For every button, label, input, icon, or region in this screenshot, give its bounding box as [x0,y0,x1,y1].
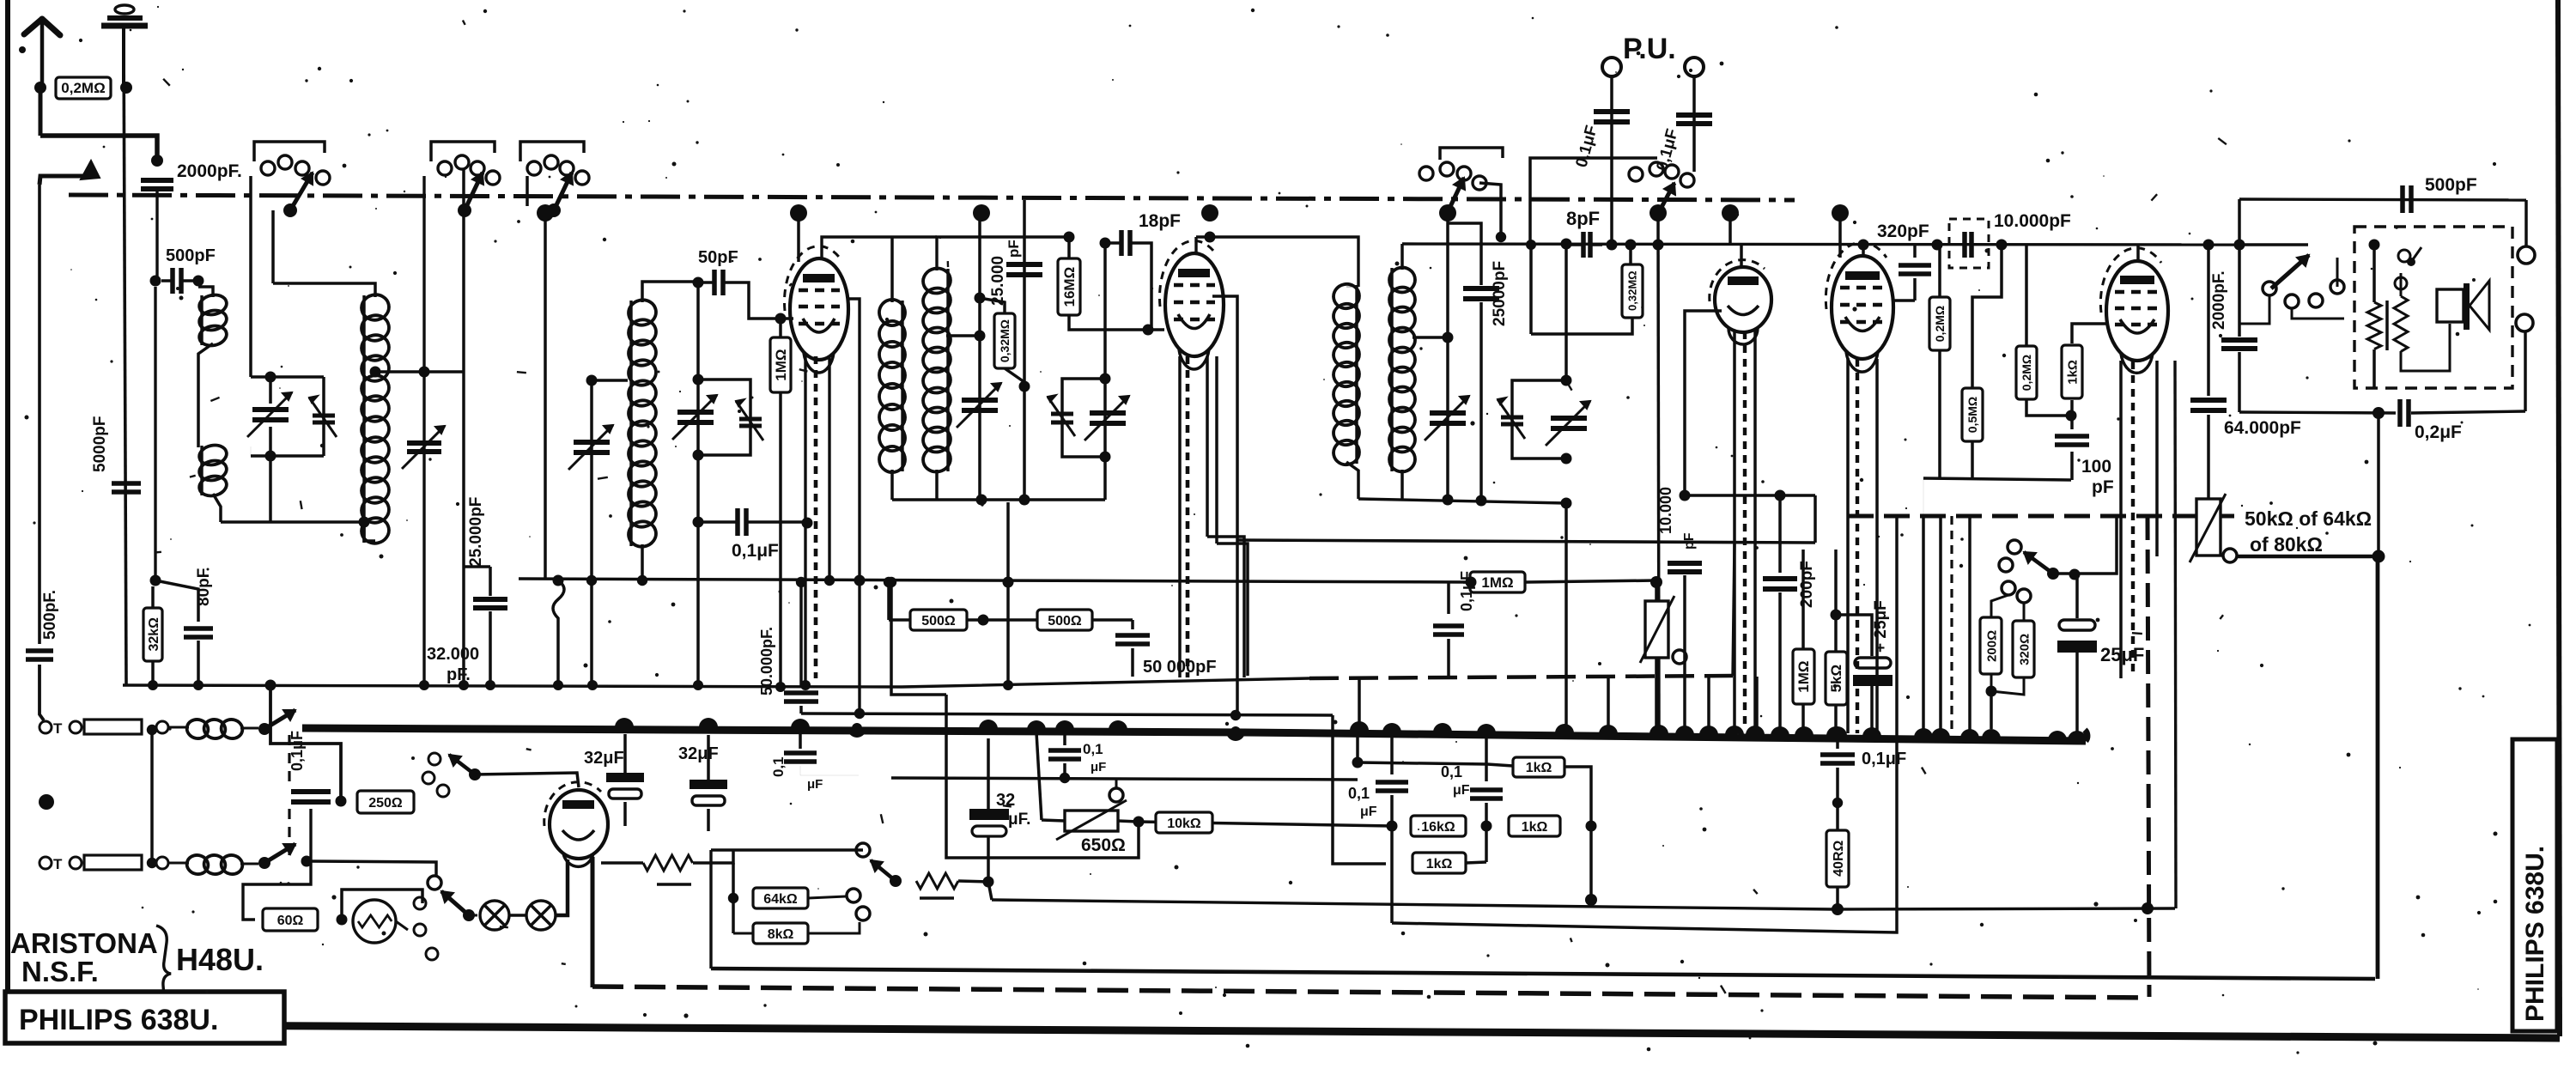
transformer secondary winding [2394,296,2408,351]
wire x1621 bottom corner [1392,516,1897,932]
trimmer branch [322,377,325,456]
trimmer capacitor 3 [1051,412,1073,416]
svg-text:500pF: 500pF [166,246,216,265]
wire selector top line [711,848,863,852]
resistor 500ohm b [1037,610,1092,630]
switch mains top [258,723,270,735]
coil oscillator feedback [890,237,894,302]
svg-text:32μF: 32μF [584,749,624,768]
band switch bank 3 [527,161,541,175]
capacitor 64.000pF [2207,245,2210,396]
capacitor 0.1uF output-cathode [1828,726,1847,736]
bus junction [2048,731,2067,740]
wire V2 grid right elbow [1212,296,1237,540]
wire branch to 80pF [155,580,198,622]
svg-text:32μF: 32μF [678,744,719,763]
resistor 0.32Mohm det [1629,245,1632,265]
gang junction dot [1722,204,1739,222]
zigzag to 32uF [916,873,958,889]
resistor 8kohm [733,932,753,935]
resistor 1kohm mid [1509,816,1560,836]
wire x494 column [422,372,425,685]
capacitor 25000pF det [1448,223,1481,285]
svg-text:μF.: μF. [1008,811,1030,829]
wire top 500pF line [2239,199,2526,200]
wire V5 pins [2119,361,2123,678]
svg-text:50pF: 50pF [698,248,738,267]
svg-text:pF.: pF. [447,665,471,684]
bus junction [848,728,866,738]
lamp scale 1 [480,901,509,930]
wire V3 pins [1733,330,1736,732]
switch mains bottom [258,857,270,869]
svg-text:T: T [53,856,63,872]
capacitor 0.1uF a [1382,726,1401,735]
svg-text:80pF: 80pF [195,568,213,606]
wire coil bottom tail [641,544,644,579]
bus junction [1675,726,1694,735]
wire V1 screen elbow down [847,299,860,715]
wire tap link [592,379,628,382]
svg-text:pF: pF [2092,477,2114,497]
antenna symbol [40,19,45,90]
wire line y833 [801,714,1333,715]
svg-text:0,1: 0,1 [1083,741,1103,757]
coil IF1 secondary [920,266,952,296]
wire x1853 to y1046 [1589,826,1593,900]
coil antenna primary upper [197,293,228,318]
wire x1038 drop [891,582,946,695]
capacitor 0.1uF PU right [1692,76,1696,172]
wire left drop 500pF [2238,199,2241,245]
junction [693,374,704,386]
resistor 200ohm [1991,595,2008,617]
bus junction [1699,726,1718,735]
svg-text:8kΩ: 8kΩ [768,927,794,942]
capacitor 500pF tone [2400,185,2405,213]
wire tap line y433 [375,370,464,373]
bus junction [1746,726,1765,735]
svg-text:40RΩ: 40RΩ [1832,841,1846,877]
svg-text:1MΩ: 1MΩ [1481,574,1513,591]
capacitor 0.1uF b [1477,726,1496,736]
resistor 250ohm [357,791,414,813]
svg-text:250Ω: 250Ω [368,796,403,811]
thermal resistor (barretter) [353,900,396,943]
coil RF choke bottom [185,853,210,877]
wire y674 junction [637,575,647,586]
capacitor 0.1uF avc [1055,724,1074,733]
wire switch1 riser [271,210,275,283]
svg-text:60Ω: 60Ω [277,914,304,928]
svg-text:PHILIPS 638U.: PHILIPS 638U. [19,1004,218,1036]
wire main bus (chassis minus rail) [302,728,2086,741]
svg-text:2000pF.: 2000pF. [177,161,242,181]
tube V4 AF amp [1832,256,1893,359]
wire coil top tail [273,283,375,297]
svg-text:0,32MΩ: 0,32MΩ [998,319,1012,362]
bus junction [1555,724,1574,733]
wire bottom line IF1 [937,498,1105,501]
bus junction [1862,727,1881,737]
wire thin distribution rail [123,678,1309,687]
wire switch common to transformer [2292,308,2344,319]
gang junction dot [1649,204,1667,222]
wire x1141 column [978,213,981,500]
wire riser x2533 from speaker area [2175,361,2176,908]
wire to 250ohm [336,796,347,807]
bus junction [1649,725,1668,734]
wire bottom dashed rail L2 [592,987,2149,998]
svg-text:25.000pF: 25.000pF [467,497,485,567]
wire audio line y674 [519,579,1471,582]
transformer primary winding [2372,245,2376,302]
bus junction [1795,726,1814,736]
resistor 1Mohm grid leak [779,319,782,337]
wire tone line [2053,516,2117,574]
bus junction [1382,723,1401,732]
svg-text:1kΩ: 1kΩ [1522,820,1548,835]
svg-text:N.S.F.: N.S.F. [21,956,99,987]
bus junction [1914,728,1933,738]
svg-text:0,1μF: 0,1μF [1458,571,1475,611]
tuned det node [1561,239,1572,250]
svg-text:64kΩ: 64kΩ [763,892,798,907]
resistor 32kohm [151,586,155,607]
svg-text:1MΩ: 1MΩ [773,349,789,380]
bus junction [1027,720,1046,730]
wire coil tail to node line [213,494,221,522]
capacitor 50000pF b [1131,620,1134,629]
wire detector line y572 [1685,494,1815,497]
wire column x2046 [1755,677,1759,732]
trimmer capacitor 2 [739,417,762,422]
svg-text:1kΩ: 1kΩ [2065,360,2080,385]
junction [150,575,161,586]
svg-text:650Ω: 650Ω [1081,835,1126,855]
tube V3 detector triode [1715,267,1771,332]
resistor 1Mohm AF [1801,550,1805,648]
wire column x2294 [1968,516,1971,736]
wire 200/320 join [1991,674,2024,695]
junction above bus [852,723,862,733]
variable capacitor main tuning 1 [252,407,289,412]
resistor 60ohm [263,908,318,931]
svg-text:0,2μF: 0,2μF [2415,422,2462,442]
svg-text:μF: μF [1360,805,1377,819]
wire b4 out [1479,183,1501,237]
gang junction dot [790,204,807,222]
capacitor 0.2uF output [2397,399,2403,427]
svg-text:5kΩ: 5kΩ [1828,665,1844,693]
svg-text:50kΩ of 64kΩ: 50kΩ of 64kΩ [2245,507,2372,530]
svg-text:10.000pF: 10.000pF [1994,211,2071,231]
wire y1046 start [988,882,992,900]
svg-text:320pF: 320pF [1877,222,1929,241]
bus junction [1960,729,1979,738]
wire output bottom line [2239,412,2396,413]
capacitor 0.1uF coupling [735,508,740,536]
svg-text:0,2MΩ: 0,2MΩ [61,80,105,96]
svg-text:pF: pF [1005,240,1022,258]
wire V1 anode up [822,237,892,258]
wire x1102 drop [946,695,1139,858]
wire x650 squiggle to rail [553,580,564,685]
junction [459,680,469,690]
switch output tap [890,875,902,887]
wire tuned top node [251,375,324,379]
wire fuse row link [150,730,154,863]
svg-text:H48U.: H48U. [176,942,264,977]
svg-text:0,1: 0,1 [770,756,787,777]
switch speaker inner [2398,250,2410,262]
wire b2 riser [422,176,425,372]
wire V4 grid elbow [1894,299,1915,302]
fuse input bottom [39,857,52,869]
svg-text:0,5MΩ: 0,5MΩ [1965,397,1979,433]
svg-text:64.000pF: 64.000pF [2224,418,2301,438]
wire osc bottom line [892,498,937,501]
capacitor 25uF bypass [2075,574,2079,618]
resistor 1kohm grid stopper [2070,400,2074,416]
resistor 10kohm [1156,812,1212,833]
svg-text:320Ω: 320Ω [2017,634,2032,665]
bus junction [1109,720,1127,730]
band switch bank 4 [1419,167,1433,180]
svg-text:200Ω: 200Ω [1984,630,1999,662]
svg-text:0,32MΩ: 0,32MΩ [1626,270,1639,311]
wire x2770 column [2377,413,2380,554]
wire page border left [5,0,10,1029]
capacitor 200pF [1775,490,1786,501]
speck [19,46,26,53]
svg-text:2000pF.: 2000pF. [2210,270,2228,330]
svg-text:0,1μF: 0,1μF [732,541,779,561]
wire line y907 [891,778,1358,780]
lamp scale 2 [526,901,556,930]
resistor 0.2Mohm a [1938,245,1941,297]
wire column dashed x2273 [1950,516,1953,735]
gang junction dot [537,204,554,222]
junction [802,518,813,529]
resistor 320ohm [2023,603,2026,621]
wire wiper bold [2237,555,2379,559]
wire lamps up to rectifier [556,859,568,915]
wire rect cathode down bold [591,857,595,987]
resistor 64kohm [753,888,808,908]
capacitor 32.000pF [489,567,492,596]
coil IF3 secondary [1387,265,1417,295]
wire V4 anode [1838,213,1842,258]
terminal output top [2518,246,2535,264]
junction [34,82,46,94]
terminal PU right [1685,58,1704,76]
switch tone lever [2047,568,2059,580]
wire dashed vertical right rail [2148,516,2149,997]
trimmer capacitor 1 [313,414,335,418]
bus junction [791,719,810,728]
wire contact riser b1 [249,176,252,377]
ground symbol [122,27,125,88]
junction on dashed rail [2142,902,2154,914]
svg-text:10kΩ: 10kΩ [1167,817,1201,831]
svg-text:500pF.: 500pF. [41,590,59,640]
bus junction [2068,731,2087,740]
resistor 5kohm [1834,550,1838,651]
resistor 1Mohm series AF [1470,572,1525,592]
bus junction [615,718,634,727]
bus junction [699,718,718,727]
wire detector line riser [1814,495,1817,543]
wire page border right [2558,0,2560,1036]
speaker [2437,289,2464,322]
wire V3 grid feed [1685,311,1722,495]
tube V2 IF amplifier [1165,253,1224,356]
svg-text:0,1: 0,1 [1348,785,1370,802]
switch selector lever [463,909,475,921]
gang junction dot [1439,204,1456,222]
wire b3 riser [526,176,529,206]
bus junction [1477,724,1496,733]
wire tuned bottom node [251,454,324,458]
variable capacitor padder 1 [574,440,610,445]
wire ground stem [124,27,126,685]
wire b2 feed down [463,210,465,372]
label box PHILIPS 638U [5,992,284,1043]
wire coil link [198,287,213,297]
wire tap IF3 [1413,336,1448,339]
bus junction [979,720,998,729]
svg-text:500pF: 500pF [2425,175,2477,195]
wire anode rail gap fill [892,235,937,239]
trimmer box 2 [698,380,750,455]
junction [359,517,370,528]
switch heater lever [469,768,481,780]
svg-text:0,2MΩ: 0,2MΩ [2020,355,2033,391]
potentiometer volume 650-ohm style [1650,576,1662,588]
wire x1552 elbow [1333,715,1386,864]
svg-text:16kΩ: 16kΩ [1421,820,1455,835]
svg-text:0,1μF: 0,1μF [289,731,306,771]
svg-text:100: 100 [2081,457,2111,477]
wire x1931 column down [1658,214,1659,732]
junction [337,914,348,926]
bus junction [1055,720,1074,730]
svg-text:5000pF: 5000pF [91,416,109,472]
wire audio line after 1M [1525,580,1656,582]
svg-text:32.000: 32.000 [427,645,479,664]
wire antenna drop [39,88,43,136]
svg-text:8pF: 8pF [1566,208,1600,229]
barretter bypass [342,890,422,920]
svg-text:10.000: 10.000 [1657,487,1674,534]
wire y888 line [1358,762,1487,764]
coil RF choke top [185,718,210,741]
wire x46 to mains [39,665,44,720]
svg-text:25000pF: 25000pF [1491,261,1509,326]
variable capacitor padder A [407,440,441,446]
resistor 40ohm [1826,830,1849,887]
svg-text:P.U.: P.U. [1623,33,1676,65]
wire column x1990 [1707,677,1710,732]
gang junction dot [1201,204,1218,222]
bus junction [1931,728,1950,738]
capacitor 25uF cathode [1836,615,1872,656]
svg-text:PHILIPS 638U.: PHILIPS 638U. [2521,846,2549,1022]
junction [151,155,163,167]
svg-text:1kΩ: 1kΩ [1426,857,1453,871]
bus junction [1226,732,1245,741]
selector contacts [414,897,426,909]
svg-text:+ 25μF: + 25μF [1872,600,1890,653]
capacitor 10.000pF dashed box [1949,219,1989,268]
svg-text:0,2MΩ: 0,2MΩ [1933,306,1947,342]
svg-text:μF: μF [1091,760,1106,774]
wire y557 [1923,478,2071,480]
bus junction [1826,726,1845,736]
wire anode line to IF3 [937,236,1069,238]
wire tuned node bottom line [221,520,364,523]
svg-text:ARISTONA: ARISTONA [10,927,158,959]
wire column x2260 [1939,516,1942,735]
svg-text:200pF: 200pF [1798,561,1816,608]
junction [120,82,132,94]
wire heater rail L1 [711,969,2375,979]
wire line y957 to 16k [1139,822,1392,826]
fuse input top [39,721,52,733]
coil antenna secondary (tall) [359,292,391,322]
bus junction [1771,726,1789,736]
svg-text:50.000pF.: 50.000pF. [758,627,775,695]
bus junction [1350,721,1369,731]
wire V1 pins down [804,356,806,685]
wire bold drop to L1 [2376,556,2380,979]
wire x1174 column [1006,502,1010,685]
gang junction dot [1832,204,1849,222]
wire B+ line y284 [1402,244,2238,245]
wire x1583 column [1358,677,1361,731]
wire loop riser [1529,245,1533,334]
variable capacitor main tuning 2 [677,410,714,415]
wire x1824 down to bus [1564,503,1568,732]
resistor 1kohm bottom [1413,853,1466,873]
capacitor 0.1uF hum [791,722,810,732]
tube V1 mixer [790,258,848,360]
svg-text:500Ω: 500Ω [1048,614,1082,629]
capacitor 100pF [2070,416,2074,429]
wire dashed rail continuation [1309,676,1733,678]
wire x1686 column [1446,213,1449,500]
label box PHILIPS 638U vertical [2512,739,2557,1031]
wire V1 grid cap [797,213,800,262]
svg-text:500Ω: 500Ω [921,614,956,629]
bus junction [1982,729,2001,738]
band switch bank 5 (PU switch) [1629,167,1643,181]
svg-text:16MΩ: 16MΩ [1061,267,1078,307]
aerial trim arrow [81,161,100,179]
wire AVC line [1237,540,1815,543]
resistor 650ohm variable [1027,723,1046,732]
bus junction [1725,726,1744,735]
wire mains live to selector [307,861,436,876]
wire right terminal drop [2524,200,2528,246]
svg-text:0,1μF: 0,1μF [1862,750,1906,768]
svg-text:1MΩ: 1MΩ [1795,660,1812,692]
resistor 0.32Mohm [975,293,986,304]
variable capacitor padder 3 [1430,410,1466,416]
wire 64k 8k bracket [732,863,735,933]
capacitor 2000pF [141,178,173,183]
